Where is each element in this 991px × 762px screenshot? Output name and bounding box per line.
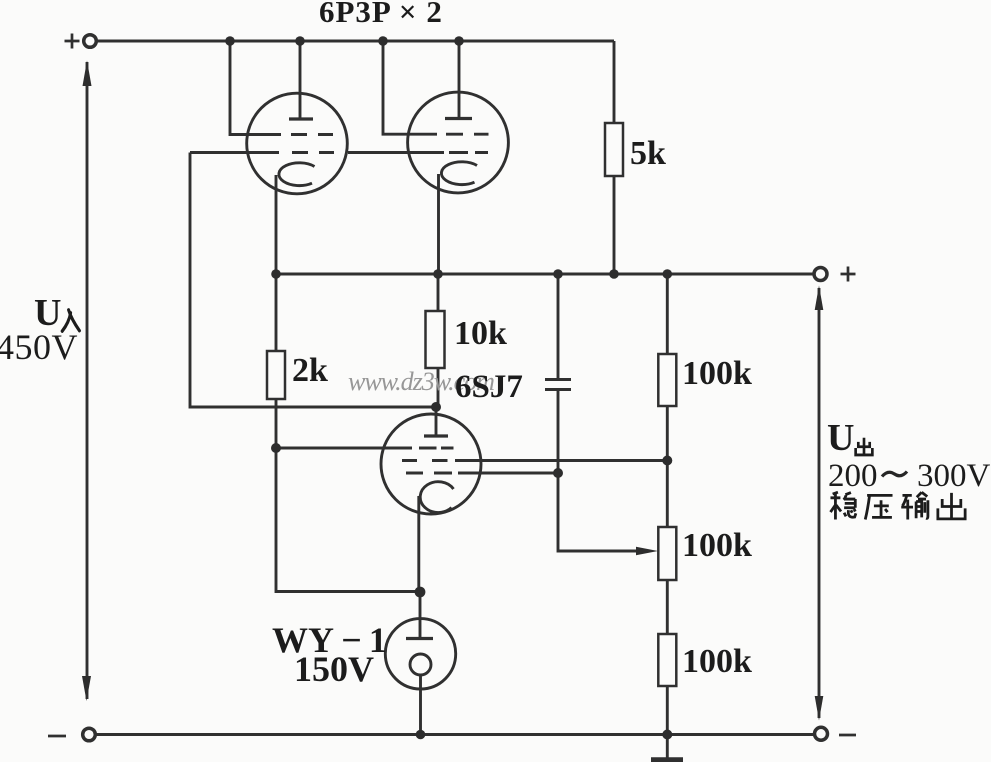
svg-text:10k: 10k [454,315,507,352]
arrowhead wiper [636,547,658,555]
tube V3 g2 dashes [402,459,448,462]
tube V2 6P3P right : plate [445,117,472,120]
svg-text:6SJ7: 6SJ7 [455,369,523,405]
svg-text:300V: 300V [917,458,991,494]
wire grid drop left tube [230,41,281,135]
tube V2 cathode [441,162,477,185]
tube V4 cathode lead [419,675,422,735]
wire grid drop right tube [383,41,437,134]
tube V1 6P3P left : plate [289,117,313,120]
terminal - output [815,727,828,740]
wire 6SJ7 g2 to divider [455,459,667,462]
ground [666,735,669,758]
tube V3 envelope [381,414,481,514]
arrowhead U-in up [83,61,92,87]
resistor R3 10k [437,274,440,311]
terminal + output [814,268,827,281]
glyph ru (enter) subscript [62,310,79,331]
capacitor C1 [557,274,560,380]
tube V4 cathode disc [410,654,431,675]
tube V2 screen grid dashes [446,133,489,136]
svg-text:100k: 100k [682,643,752,680]
node 6SJ7 plate [431,402,441,412]
arrowhead U-out up [815,286,824,311]
label + (input) [65,34,80,49]
node WY-1 top [415,587,426,598]
svg-text:450V: 450V [0,327,78,367]
svg-text:100k: 100k [682,355,752,392]
wire top rail [97,40,615,43]
resistor R2 2k [275,274,278,351]
svg-text:2k: 2k [292,352,328,389]
label + (output) [841,267,856,282]
glyph ya (press) [865,495,892,519]
resistor R4 100k upper [666,274,669,354]
wire 6SJ7 g3 to capacitor node [458,472,558,475]
glyph wen (stable) [830,492,855,519]
svg-text:U: U [827,417,854,459]
node cathode rail 10k [433,269,443,279]
tube V3 cathode [420,482,453,513]
wire 6P3P grids to 6SJ7 plate [190,153,436,408]
svg-text:5k: 5k [630,135,666,172]
tube V4 envelope [385,619,455,689]
resistor R6 100k lower [658,634,676,686]
svg-text:150V: 150V [294,649,374,689]
arrowhead U-in down [82,676,91,701]
wire capacitor node to wiper [558,473,640,551]
node cathode rail 100k [663,269,673,279]
glyph chu (out) subscript [856,438,873,455]
svg-text:200: 200 [828,458,878,494]
svg-text:100k: 100k [682,527,752,564]
node WY-1 bottom rail [416,730,426,740]
glyph chu (out) [938,493,965,519]
node g2 divider [662,456,672,466]
glyph shu (transport) [901,492,928,519]
node top rail 4 [454,36,464,46]
label - (output) [839,734,856,737]
tube V3 g3 dashes [406,472,452,475]
arrowhead U-out down [815,696,824,721]
node cathode rail 5k [609,269,619,279]
tube V3 g1 dashes [419,447,454,450]
node cathode rail 2k [271,269,281,279]
tube V2 control grid dashes [449,151,488,154]
tube V2 envelope [408,92,509,193]
node top rail 3 [378,36,388,46]
resistor R5 100k middle (adjustable) [666,461,669,528]
wire plate lead left tube [299,41,302,118]
wire plate lead right tube [458,41,461,118]
node cap bottom [553,468,563,478]
node cathode rail cap [553,269,563,279]
node top rail 2 [295,36,305,46]
wire 2k to 6SJ7 g1 [276,447,412,450]
label - (input) [48,735,66,738]
wire cathode output rail [276,273,814,276]
wire bottom rail [96,733,814,736]
node 2k bottom [271,443,281,453]
wire control grid bus [190,151,444,154]
resistor R1 5k [613,41,616,123]
tilde [882,472,907,477]
node ground rail [662,730,672,740]
tube V3 6SJ7 : plate lead [435,407,438,435]
tube V4 anode [406,637,433,640]
node top rail 1 [225,36,235,46]
arrow U-out measure [818,288,821,718]
tube V1 screen grid dashes [291,133,333,136]
terminal - input [83,728,96,741]
tube V4 WY-1 : anode lead [419,592,422,639]
terminal + input left [84,35,97,48]
arrow U-in measure [86,62,89,699]
tube V1 control grid dashes [292,151,334,154]
tube V3 plate [424,434,448,437]
wire 2k bottom to WY-1 [276,448,420,592]
svg-text:6P3P × 2: 6P3P × 2 [319,0,443,29]
tube V1 envelope [247,93,348,194]
tube V1 cathode [279,163,315,186]
